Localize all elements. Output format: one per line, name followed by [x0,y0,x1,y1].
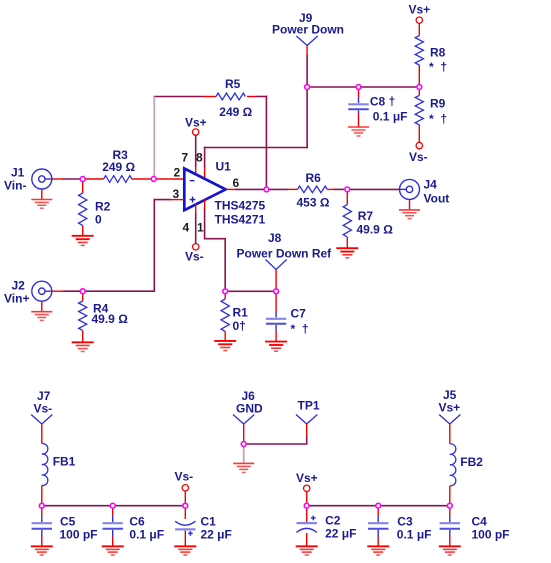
wire pin 4 [195,203,197,243]
ground below R4 [72,342,94,351]
svg-text:Vin-: Vin- [4,179,26,193]
node junction C1 tap [183,503,188,508]
svg-text:49.9 Ω: 49.9 Ω [357,223,394,237]
node junction R6/R7 [345,187,350,192]
svg-text:1: 1 [197,221,204,235]
wire pin 8 [204,148,206,180]
ground below J1 [31,189,52,208]
power terminal Vs+ (op-amp pin 7) [185,116,207,136]
connector J7 header symbol [31,415,52,444]
wire gray R5 left vertical [153,97,155,180]
svg-text:FB2: FB2 [460,455,483,469]
ground below C8 [348,127,369,136]
capacitor C5 [32,506,98,547]
svg-text:Vs+: Vs+ [409,3,431,17]
node junction R8/R9 [417,85,422,90]
ground below C2 [296,546,318,555]
node junction C8 tap [356,85,361,90]
ferrite bead FB1 [42,443,76,505]
svg-text:J1: J1 [11,166,25,180]
svg-text:* †: * † [429,60,447,74]
node junction C2 tap [304,503,309,508]
connector J6 labels [236,389,263,416]
svg-text:22 μF: 22 μF [325,527,356,541]
wire node to pin 2 [154,178,185,180]
svg-text:100 pF: 100 pF [472,528,510,542]
svg-text:249 Ω: 249 Ω [219,105,252,119]
node junction J6/TP1 [241,442,246,447]
svg-text:Vs-: Vs- [185,250,204,264]
svg-text:8: 8 [196,151,203,165]
connector J2 [4,279,52,306]
svg-text:C3: C3 [397,515,413,529]
node junction output/R5 [264,187,269,192]
wire pin8 horizontal [205,147,308,149]
svg-text:7: 7 [182,151,189,165]
svg-text:Vs-: Vs- [34,402,53,416]
connector J4 [400,177,450,205]
node junction J9 net [305,85,310,90]
wire R1 node to C7 node [225,290,276,292]
power terminal Vs- (op-amp pin 4) [185,244,204,264]
ground below C3 [367,546,389,555]
svg-text:C2: C2 [325,514,341,528]
connector J9 header symbol [296,36,317,56]
resistor R4 [79,291,129,342]
svg-text:100 pF: 100 pF [60,528,98,542]
svg-text:THS4275: THS4275 [215,199,266,213]
capacitor C2 (polarized) [297,506,357,547]
node junction J1/R2/R3 [80,177,85,182]
power terminal Vs+ (top right) [409,3,431,24]
capacitor C1 (polarized) [175,506,232,547]
wire bottom-left rail [42,505,186,507]
capacitor C4 [440,506,510,547]
svg-text:249 Ω: 249 Ω [102,160,135,174]
wire bottom-right rail [307,505,450,507]
svg-text:* †: * † [291,322,309,336]
resistor R2 [79,179,111,235]
wire pin 1 to R1 node [205,199,226,291]
connector J9 labels [272,11,344,37]
node junction C7 tap [274,289,279,294]
capacitor C3 [368,506,431,547]
svg-text:0†: 0† [233,319,246,333]
svg-text:C8 †: C8 † [370,94,395,108]
svg-text:TP1: TP1 [298,399,320,413]
svg-text:49.9 Ω: 49.9 Ω [92,312,129,326]
op-amp U1 [173,151,266,235]
node junction FB2/C4 [447,503,452,508]
svg-text:3: 3 [173,187,180,201]
svg-text:Vs-: Vs- [175,470,194,484]
svg-text:4: 4 [183,221,190,235]
svg-text:* †: * † [429,112,447,126]
svg-text:R9: R9 [430,97,446,111]
svg-text:0: 0 [95,213,102,227]
connector J7 labels [34,389,53,416]
resistor R9 [415,87,447,142]
wire to J4 [347,188,399,190]
ground below C6 [102,546,124,555]
node junction FB1/C5 [39,503,44,508]
ground below J2 [31,302,52,321]
wire J1 to node [52,178,83,180]
connector J1 [4,166,52,193]
svg-text:FB1: FB1 [53,455,76,469]
ground below C5 [31,546,53,555]
svg-text:Power Down: Power Down [272,23,344,37]
ground below R2 [72,236,94,246]
svg-text:R5: R5 [225,77,241,91]
connector J5 labels [439,388,461,415]
svg-text:C5: C5 [60,515,76,529]
connector J8 header symbol [266,260,287,292]
svg-text:Vs+: Vs+ [185,116,207,130]
svg-text:J2: J2 [12,279,26,293]
svg-text:0.1 μF: 0.1 μF [397,528,432,542]
wire pin 7 [195,135,197,176]
node junction J2/R4 [80,289,85,294]
node junction R3/R5/pin2 [151,177,156,182]
ground below J4 [399,200,420,219]
svg-text:2: 2 [174,166,181,180]
svg-text:C4: C4 [472,515,488,529]
power terminal Vs- (below R9) [409,142,428,164]
svg-text:C6: C6 [129,515,145,529]
svg-text:Vs-: Vs- [409,150,428,164]
svg-text:THS4271: THS4271 [215,213,266,227]
ground below C1 [174,546,196,555]
wire pin 6 output [226,188,267,190]
resistor R8 [415,23,447,87]
svg-text:0.1 μF: 0.1 μF [129,528,164,542]
resistor R1 [221,291,248,340]
resistor R6 [266,171,347,210]
node junction R1 tap [223,289,228,294]
svg-text:Vin+: Vin+ [4,292,29,306]
wire J9 power-down vertical [306,56,308,148]
wire R5 right vertical to output [265,97,267,190]
svg-text:U1: U1 [216,160,232,174]
svg-text:R1: R1 [233,306,249,320]
power terminal Vs- (above C1) [175,470,194,506]
wire power-down horizontal to R8/R9 [307,86,419,88]
svg-text:453 Ω: 453 Ω [297,196,330,210]
power terminal Vs+ (above C2) [296,471,318,506]
wire TP1 to J6 [244,437,307,444]
connector J5 header symbol [439,415,460,444]
svg-text:R8: R8 [430,46,446,60]
svg-text:C1: C1 [201,515,217,529]
svg-text:22 μF: 22 μF [201,528,232,542]
connector J8 labels [237,231,333,261]
svg-text:0.1 μF: 0.1 μF [373,110,408,124]
ground below R7 [336,248,358,258]
capacitor C6 [103,506,165,547]
svg-text:J8: J8 [268,231,282,245]
svg-text:R6: R6 [306,171,322,185]
ground below C4 [439,546,461,555]
node junction C6 tap [110,503,115,508]
wire pin 3 net [83,200,185,292]
test point TP1 [296,399,320,438]
svg-text:Vs+: Vs+ [439,401,461,415]
svg-text:Vs+: Vs+ [296,471,318,485]
connector J6 header symbol [233,415,254,445]
resistor R3 [83,148,154,182]
svg-text:C7: C7 [291,307,307,321]
svg-text:J4: J4 [424,177,438,191]
resistor R5 feedback [154,77,266,119]
svg-text:GND: GND [236,402,263,416]
svg-text:R7: R7 [358,209,374,223]
capacitor C8 [348,87,407,127]
resistor R7 [343,189,393,247]
capacitor C7 [266,291,309,341]
ground below C7 [265,342,287,352]
svg-text:R2: R2 [95,200,111,214]
ground below R1 [214,341,236,351]
node junction C3 tap [376,503,381,508]
wire J2 to node [52,290,83,292]
svg-text:6: 6 [233,176,240,190]
svg-text:Power Down Ref: Power Down Ref [237,247,333,261]
svg-text:Vout: Vout [424,191,450,205]
ground below J6 [233,444,254,472]
ferrite bead FB2 [450,444,483,506]
